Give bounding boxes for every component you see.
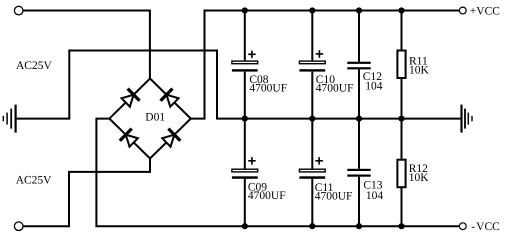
junction dots top rail [242,7,405,13]
terminal +VCC [459,7,466,14]
resistor R11 [397,51,405,79]
svg-text:4700UF: 4700UF [316,83,354,95]
diode D01c bottom-left [120,129,140,149]
svg-text:104: 104 [365,80,383,92]
capacitor C09 [232,157,258,179]
svg-text:D01: D01 [145,112,165,124]
capacitor C11 [299,157,325,179]
wire -VCC rail: bridge left vertex to -VCC terminal [96,119,459,227]
ground right [462,105,473,133]
svg-text:4700UF: 4700UF [315,191,353,203]
svg-text:+VCC: +VCC [470,6,500,18]
diode D01b top-right [161,89,181,109]
terminal -VCC [459,223,466,230]
diode D01d bottom-right [160,129,180,149]
wire column C10 leads [311,11,313,119]
wire column C09 leads [244,119,246,227]
wire ground net: left ground, center-tap riser, mid rail to right ground [16,51,460,119]
junction dots mid ground rail [242,116,405,122]
capacitor C12 [347,62,370,70]
resistor R12 [397,160,405,188]
svg-text:4700UF: 4700UF [249,83,287,95]
wire column R12 leads [401,119,403,227]
capacitor C08 [232,51,258,72]
wire column R11 leads [401,11,403,119]
wire AC2: bottom-left terminal to bridge bottom vertex [23,159,150,227]
wire column C08 leads [244,11,246,119]
ground left (center tap) [3,105,15,133]
wire column C13 leads [358,119,360,227]
wire column C11 leads [311,119,313,227]
svg-text:AC25V: AC25V [16,175,52,187]
svg-text:AC25V: AC25V [16,60,52,72]
svg-text:10K: 10K [409,172,430,184]
wire +VCC rail: bridge right vertex to +VCC terminal [191,11,459,119]
svg-text:10K: 10K [409,65,430,77]
terminal AC bottom-left [14,222,23,231]
svg-text:104: 104 [366,190,384,202]
diode D01a top-left [120,89,140,109]
svg-text:-VCC: -VCC [471,221,500,233]
junction dots bottom rail [242,223,405,229]
capacitor C13 [347,169,370,177]
bridge D01 diamond [109,79,190,159]
svg-text:4700UF: 4700UF [248,190,286,202]
terminal AC top-left [14,6,23,15]
wire AC1: top-left terminal to bridge top vertex [23,11,150,79]
capacitor C10 [299,50,325,71]
wire column C12 leads [358,11,360,119]
